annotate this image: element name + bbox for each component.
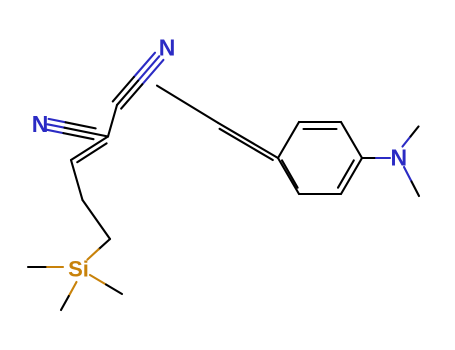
inner aromatic line right-bottom [338, 160, 354, 187]
svg-text:Si: Si [68, 256, 89, 281]
C1=A double bond [71, 137, 108, 163]
bond ring-N3 [362, 157, 390, 159]
bond C-Si [88, 239, 111, 260]
top nitrile: triple bond N2#C (bundle at 49deg, elbow K, steeper single to C1) [108, 53, 163, 137]
Si methyl down-right [90, 275, 122, 294]
Si methyl left (horizontal) [28, 266, 63, 268]
N3 methyl up [403, 127, 419, 147]
bond B-C [83, 200, 111, 239]
inner aromatic line top [304, 128, 337, 130]
N3 methyl down [404, 167, 419, 196]
Si methyl down-left [61, 282, 77, 310]
benzene ring [278, 122, 362, 194]
bond A-B [71, 160, 83, 200]
inner aromatic line left-bottom [282, 160, 298, 187]
left nitrile: triple bond N1#C [46, 119, 108, 139]
chain single bond T-M [157, 86, 218, 123]
svg-text:N: N [159, 35, 176, 61]
chain double bond M=L [218, 123, 278, 160]
svg-text:N: N [32, 111, 49, 137]
